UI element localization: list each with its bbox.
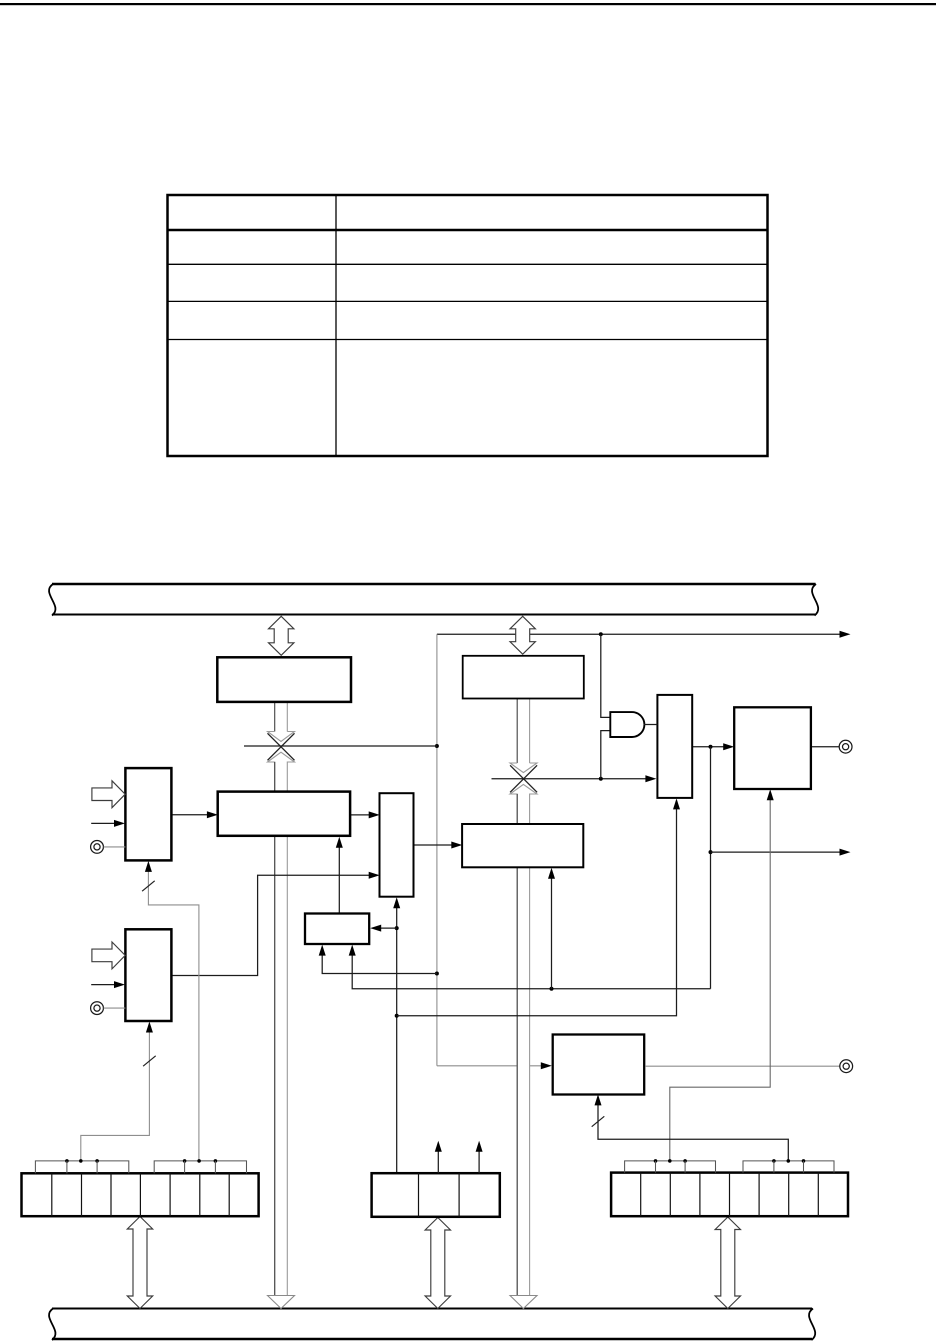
table header separator [168, 229, 768, 232]
wire capture register to selector [350, 814, 376, 816]
page header rule [0, 3, 936, 5]
output latch box (big) [734, 707, 811, 789]
pin TI01 (double circle) [91, 1002, 104, 1015]
data bus from compare register (right, lower segment) [510, 784, 537, 1295]
register box A (16-bit timer register) [217, 657, 351, 702]
pin (double circle, output control) [840, 1060, 853, 1073]
wire trunk to selector bottom input (y=1015.7) [397, 801, 677, 1016]
bus arrow to timer register A [269, 616, 294, 655]
table row line 3 [168, 300, 768, 302]
pin input block arrow TI01 [92, 942, 125, 969]
data bus from compare register (right, upper segment) [516, 699, 518, 764]
wire output control to pin [646, 1065, 840, 1067]
wire capture clock through left crossing [244, 745, 437, 747]
wire AND gate bottom input [601, 731, 610, 779]
wire counter TI01 to selector input [171, 875, 376, 975]
wire feedback to match/reload (y=988.8) [352, 948, 710, 989]
wire output latch control from mode register [670, 792, 770, 1161]
table row line 4 [168, 339, 768, 341]
output control box [553, 1035, 645, 1095]
wire AND gate top input [601, 634, 610, 717]
bit bracket right-2 [743, 1161, 834, 1173]
wire selector to output latch [692, 746, 731, 748]
wire tap up into compare register B2 [551, 871, 553, 989]
bus arrow to register file (middle) [425, 1218, 450, 1309]
bus arrow to register file (left) [127, 1217, 152, 1309]
wire trunk to output-control box [437, 1065, 549, 1067]
wire pin TI01 to counter [104, 1007, 126, 1009]
wire output control from mode register bits [598, 1098, 788, 1161]
flag output stub 1 [437, 1144, 439, 1173]
compare register box B2 [462, 824, 583, 867]
wire timer output feedback (y=852) [711, 851, 848, 853]
pin TO0 (double circle) [839, 740, 852, 753]
bit bracket left-1 [35, 1161, 128, 1173]
wire input TI01 edge [91, 984, 115, 986]
wire edge-detect to capture register [338, 840, 340, 914]
wire edge-detect output trunk (x=396.7) [396, 907, 398, 1173]
edge detection box (small) [305, 914, 369, 945]
table column divider [335, 195, 337, 456]
wire counter TI00 control from mode bits [148, 864, 199, 1161]
input selector box (narrow) [380, 793, 414, 897]
output selector box (tall) [657, 695, 692, 798]
register array (left, mode registers) [22, 1173, 259, 1216]
wire selector to compare register B2 [414, 844, 460, 846]
internal bus (top) [52, 583, 816, 586]
bus arrow to compare register B [510, 616, 535, 654]
input counter box TI00 [125, 768, 171, 860]
wire match signal through right crossing to selector [492, 778, 654, 780]
wire pin TI00 to counter [104, 846, 126, 848]
wire tap down from selector output (x=710.5) [710, 747, 712, 989]
wire input TI00 edge [91, 822, 115, 824]
bus crossing symbol (right) [510, 765, 537, 792]
table outer frame [168, 195, 768, 456]
data bus from timer register (left, lower segment) [268, 752, 295, 1295]
internal bus (bottom) [52, 1307, 812, 1309]
register array (right, output control registers) [611, 1173, 848, 1217]
bus arrow to register file (right) [715, 1217, 740, 1309]
register box B (16-bit compare register) [463, 656, 584, 699]
wire counter TI00 to capture register [171, 814, 214, 816]
flag output stub 2 [478, 1144, 480, 1173]
register array (middle, control register) [372, 1173, 500, 1217]
wire counter TI01 control from mode bits [81, 1025, 150, 1161]
bit bracket left-2 [154, 1161, 246, 1173]
wire count clock to edge-detect box [322, 948, 437, 974]
wire count clock vertical trunk (x=437) [436, 634, 438, 1066]
capture register box (wide) [218, 792, 350, 836]
data bus from timer register (left, upper segment) [274, 702, 276, 732]
input counter box TI01 [125, 929, 171, 1021]
AND gate [610, 712, 644, 737]
wire output latch to TO0 pin [811, 746, 839, 748]
wire internal-count-clock to INTP output (y=634) [437, 633, 847, 635]
wire edge-detect box output [373, 927, 397, 929]
pin TI00 (double circle) [91, 841, 104, 854]
table row line 2 [168, 263, 768, 265]
bit bracket right-1 [625, 1161, 716, 1173]
pin input block arrow TI00 [92, 781, 125, 808]
bus crossing symbol (left) [268, 733, 295, 760]
